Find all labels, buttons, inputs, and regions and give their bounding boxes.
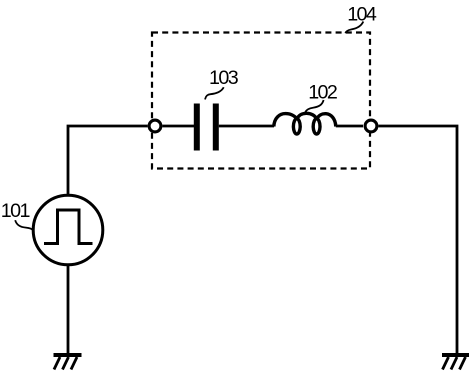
pulse source 101 <box>33 195 103 265</box>
wire: source to left node <box>68 126 148 195</box>
wire: capacitor to inductor <box>219 125 274 128</box>
ground (left) <box>54 353 82 370</box>
inductor 102 <box>274 113 336 134</box>
svg-text:102: 102 <box>308 81 337 103</box>
svg-text:103: 103 <box>209 67 239 89</box>
leader 101 <box>15 220 34 230</box>
wire: inductor to right node <box>336 125 363 128</box>
leader 102 <box>305 100 323 112</box>
capacitor 103 <box>194 104 219 151</box>
ground (right) <box>442 353 469 370</box>
node A (left terminal) <box>149 120 161 132</box>
dashed box 104 <box>152 33 370 169</box>
wire: source to left ground <box>67 264 70 354</box>
svg-text:101: 101 <box>1 200 30 222</box>
leader 104 <box>345 22 363 34</box>
leader 103 <box>205 87 224 99</box>
node B (right terminal) <box>365 120 377 132</box>
wire: right node to right ground <box>379 126 458 354</box>
wire: left node to capacitor <box>163 125 195 128</box>
